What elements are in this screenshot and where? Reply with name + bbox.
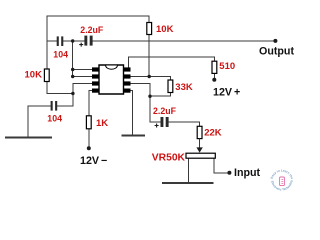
junction dot pin1 wire bbox=[71, 68, 74, 71]
svg-text:10K: 10K bbox=[156, 24, 174, 35]
C4 plus sign bbox=[155, 124, 159, 128]
potentiometer VR1 body bar bbox=[186, 153, 215, 158]
svg-text:104: 104 bbox=[53, 49, 68, 59]
ground bar G1 bbox=[6, 137, 51, 139]
op-amp U1 IC body bbox=[99, 65, 124, 94]
watermark logo center glyph bbox=[280, 177, 285, 186]
junction dot at C1/C2 bbox=[71, 39, 74, 42]
resistor R6 22K bbox=[197, 126, 202, 138]
terminal dot 12V- bbox=[87, 146, 91, 150]
pin 6 bbox=[124, 81, 131, 85]
resistor R4 33K bbox=[168, 80, 173, 93]
wire C3 left lead to ground bbox=[28, 106, 51, 138]
svg-text:2.2uF: 2.2uF bbox=[80, 25, 104, 35]
wire C4 right lead to 22K bbox=[169, 122, 200, 126]
wire 10K-left bottom lead to junction bbox=[47, 82, 73, 94]
ground bar G3 bbox=[163, 182, 213, 184]
wire pin8 riser bbox=[127, 57, 129, 68]
wire pin3 and vertical to C3 bbox=[73, 84, 92, 106]
wire 33K bottom lead bbox=[150, 93, 170, 97]
wire C3 right lead bbox=[57, 105, 73, 107]
junction dot pin2 wire bbox=[71, 75, 74, 78]
svg-text:12V+: 12V+ bbox=[213, 86, 240, 98]
svg-text:510: 510 bbox=[219, 61, 235, 72]
wire 1K bottom lead to 12V- terminal bbox=[88, 129, 90, 148]
pin 5 bbox=[124, 89, 131, 93]
wire main signal line left segment bbox=[47, 40, 57, 42]
wire junction down to C4 bbox=[150, 96, 160, 122]
terminal dot Input bbox=[227, 171, 231, 175]
svg-text:12V−: 12V− bbox=[80, 155, 107, 167]
svg-text:33K: 33K bbox=[175, 82, 193, 93]
pin 1 bbox=[92, 67, 99, 71]
capacitor C1 104 bbox=[57, 36, 64, 46]
wire pin5 to ground bbox=[131, 91, 133, 136]
junction dot 10K-left / C3 bbox=[71, 92, 74, 95]
capacitor C4 2.2uF electrolytic bbox=[161, 117, 169, 127]
C2 plus sign bbox=[79, 43, 83, 47]
pin 7 bbox=[124, 74, 131, 78]
resistor R1 10K top feedback bbox=[147, 23, 152, 35]
wire pot left leg bbox=[187, 158, 189, 183]
svg-text:10K: 10K bbox=[25, 70, 43, 81]
wire right vertical into top of 10K feedback resistor bbox=[148, 16, 150, 23]
wire between C1 and C2 bbox=[63, 40, 84, 42]
wire pin2 bbox=[73, 76, 92, 78]
pin 8 bbox=[124, 67, 131, 71]
wire pot right leg to input bbox=[214, 158, 228, 173]
junction dot feedback on pin7 wire bbox=[148, 75, 151, 78]
wire pin6 bbox=[131, 84, 151, 97]
ground bar G2 bbox=[122, 135, 144, 137]
wire left vertical from top wire down to 10K bbox=[46, 16, 48, 69]
wire 510 bottom lead bbox=[213, 73, 215, 79]
pin 4 bbox=[92, 89, 99, 93]
resistor R3 510 bbox=[212, 61, 217, 73]
wire pin7 output to 33K bbox=[131, 77, 171, 81]
svg-text:Output: Output bbox=[259, 46, 294, 58]
svg-text:Input: Input bbox=[234, 167, 261, 179]
wire pin4 down to 1K bbox=[89, 91, 92, 116]
wiper arrow of VR1 bbox=[199, 139, 201, 149]
op-amp U1 notch bbox=[106, 66, 118, 70]
wire input branch vertical to pins 1,2 bbox=[72, 41, 74, 77]
svg-text:VR50K: VR50K bbox=[152, 152, 186, 163]
resistor R2 10K left input bbox=[44, 69, 49, 82]
wire 10K-top bottom lead down to pin7 wire bbox=[148, 35, 150, 77]
capacitor C3 104 bbox=[51, 101, 58, 111]
capacitor C2 2.2uF electrolytic bbox=[84, 36, 92, 46]
svg-text:104: 104 bbox=[47, 113, 62, 123]
wire top feedback horizontal bbox=[47, 15, 149, 17]
wire output line bbox=[93, 40, 276, 42]
terminal dot Output bbox=[273, 39, 277, 43]
pin 3 bbox=[92, 81, 99, 85]
pin 2 bbox=[92, 74, 99, 78]
wire pin1 bbox=[73, 69, 92, 71]
terminal dot 12V+ bbox=[212, 78, 216, 82]
svg-text:2.2uF: 2.2uF bbox=[153, 106, 177, 116]
junction dot 33K bottom bbox=[148, 95, 151, 98]
wire V+ supply line to 510 bbox=[128, 57, 214, 61]
svg-text:22K: 22K bbox=[204, 127, 222, 138]
resistor R5 1K bbox=[86, 116, 91, 129]
svg-text:1K: 1K bbox=[96, 118, 108, 129]
